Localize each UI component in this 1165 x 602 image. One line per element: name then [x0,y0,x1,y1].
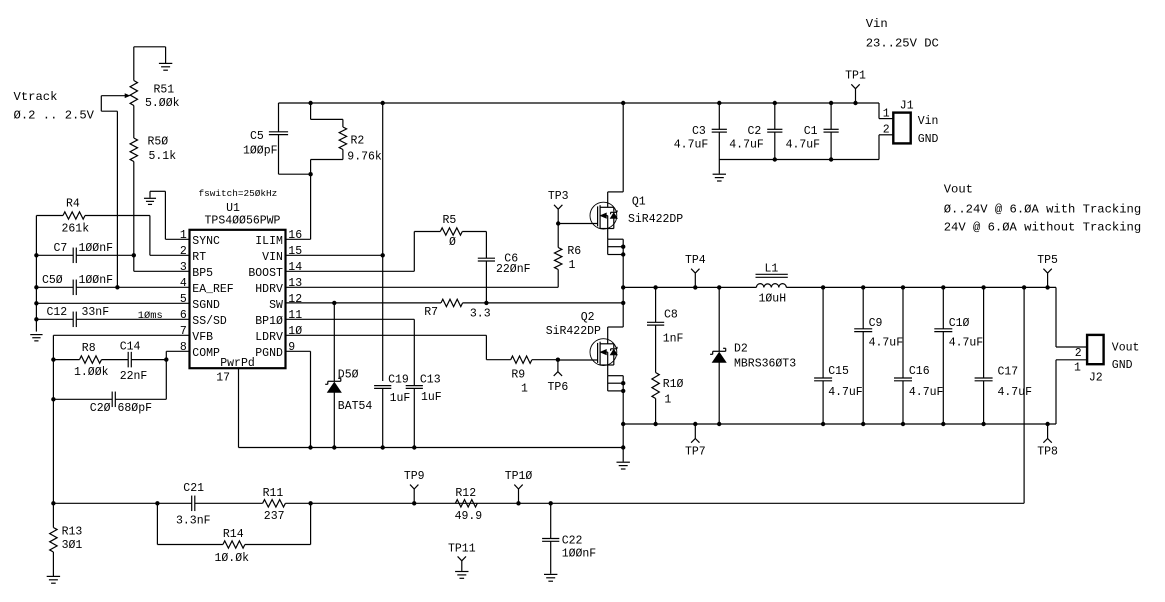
transistor Q1 SiR422DP [622,103,624,192]
svg-text:R13: R13 [62,525,83,538]
svg-text:R2: R2 [351,134,365,147]
wire power ground rail [623,423,1056,425]
Q1 source pin ladder [607,229,609,240]
svg-text:R9: R9 [511,369,525,382]
svg-text:5.ØØk: 5.ØØk [145,97,180,110]
svg-text:4.7uF: 4.7uF [674,138,709,151]
capacitor C8 [655,287,657,322]
svg-text:RT: RT [192,251,206,264]
svg-text:ILIM: ILIM [255,235,283,248]
wire COMP pin8 [166,350,189,352]
test point TP10 [518,489,520,503]
svg-text:TP11: TP11 [448,542,476,555]
svg-text:C17: C17 [998,365,1019,378]
svg-text:R8: R8 [82,342,96,355]
svg-text:C1: C1 [804,125,818,138]
capacitor C12 [36,318,73,320]
test point TP1 [855,89,857,103]
svg-text:11: 11 [288,309,302,322]
svg-text:C21: C21 [183,482,204,495]
capacitor C1 [830,103,832,129]
svg-text:C15: C15 [828,365,849,378]
resistor R13 [52,503,54,527]
wire input cap ground rail [719,159,879,161]
svg-text:SiR422DP: SiR422DP [628,213,683,226]
wire PGND pin9 [286,350,311,352]
svg-text:1ØØnF: 1ØØnF [79,242,114,255]
svg-text:2: 2 [1075,347,1082,360]
wire PwrPd pin17 [238,368,240,448]
svg-text:68ØpF: 68ØpF [118,402,153,415]
svg-text:33nF: 33nF [82,306,110,319]
svg-text:C9: C9 [869,317,883,330]
svg-text:Ø.2 .. 2.5V: Ø.2 .. 2.5V [14,109,95,123]
wire Q2 source to ground rail [622,391,624,448]
wire wiper to EA_REF [100,96,102,112]
diode D50 BAT54 [333,303,335,381]
svg-text:4: 4 [180,277,187,290]
pot wiper arrow R51 [101,95,125,97]
capacitor C17 [983,287,985,378]
resistor R50 [133,106,135,139]
svg-text:16: 16 [288,229,302,242]
wire HDRV pin13 [286,286,559,288]
svg-text:261k: 261k [62,222,90,235]
svg-text:TP7: TP7 [685,445,706,458]
test point TP9 [413,489,415,503]
test point TP3 [557,209,559,223]
ground (power pad rail) [622,448,624,462]
svg-text:TP1: TP1 [845,70,866,83]
svg-text:1: 1 [664,394,671,407]
wire SGND pin5 [36,302,189,304]
svg-text:J2: J2 [1089,372,1103,385]
svg-text:13: 13 [288,277,302,290]
connector J1 [878,103,880,119]
svg-text:Vtrack: Vtrack [14,90,58,104]
svg-text:3: 3 [180,261,187,274]
svg-text:4.7uF: 4.7uF [729,138,764,151]
capacitor C50 [36,286,73,288]
svg-text:TP5: TP5 [1037,254,1058,267]
svg-text:MBRS36ØT3: MBRS36ØT3 [734,357,796,370]
svg-text:Vin: Vin [866,17,888,31]
svg-text:R7: R7 [424,306,438,319]
svg-text:Vout: Vout [1112,342,1140,355]
ground (SYNC pin1) [150,190,165,192]
wire LDRV pin10 [286,334,487,336]
svg-text:PGND: PGND [255,347,283,360]
resistor R14 [156,503,158,544]
diode D2 MBRS360T3 [718,287,720,351]
wire VFB to feedback line [52,399,54,503]
svg-text:4.7uF: 4.7uF [949,337,984,350]
svg-text:COMP: COMP [192,347,220,360]
svg-text:LDRV: LDRV [255,331,283,344]
svg-text:R6: R6 [567,245,581,258]
svg-text:1: 1 [180,229,187,242]
wire R9 to Q2 gate [532,359,558,361]
capacitor C2 [774,103,776,129]
svg-text:9.76k: 9.76k [347,151,382,164]
Q2 source pin ladder [607,365,609,376]
wire R50 to BP5 and RT junction [133,162,135,272]
svg-text:SS/SD: SS/SD [192,315,227,328]
resistor R12 [455,500,477,507]
svg-text:R14: R14 [223,528,244,541]
svg-text:1Ø: 1Ø [288,325,302,338]
svg-text:4.7uF: 4.7uF [998,386,1033,399]
svg-text:R1Ø: R1Ø [663,378,684,391]
svg-text:2: 2 [180,245,187,258]
svg-text:BOOST: BOOST [248,267,283,280]
svg-text:C3: C3 [692,125,706,138]
capacitor C3 [718,103,720,129]
svg-text:22ØnF: 22ØnF [496,263,531,276]
svg-text:1: 1 [1074,362,1081,375]
svg-text:TP3: TP3 [548,190,569,203]
test point TP7 [694,424,696,439]
svg-text:VFB: VFB [192,331,213,344]
svg-text:1nF: 1nF [663,333,684,346]
wire BP10 pin11 [286,318,415,320]
svg-text:4.7uF: 4.7uF [786,138,821,151]
op-amp U1 TPS40056PWP box [190,230,286,368]
svg-text:22nF: 22nF [120,370,148,383]
svg-text:1uF: 1uF [390,392,411,405]
svg-text:GND: GND [918,133,939,146]
svg-text:C2: C2 [747,125,761,138]
svg-text:TP4: TP4 [685,254,706,267]
svg-text:1Ø.Øk: 1Ø.Øk [215,552,250,565]
svg-text:2: 2 [883,123,890,136]
svg-text:17: 17 [216,372,230,385]
resistor R11 [263,500,286,507]
svg-text:TP1Ø: TP1Ø [505,470,533,483]
svg-text:C5Ø: C5Ø [42,274,63,287]
svg-text:C7: C7 [54,242,68,255]
svg-text:15: 15 [288,245,302,258]
resistor R51 (pot) [130,81,137,106]
wire SW pin12 [286,302,442,304]
capacitor C22 [550,503,552,538]
wire R11 to TP9 [285,502,1024,504]
wire VIN pin15 feed [382,103,384,381]
wire R6 to Q1 gate [557,224,559,248]
svg-text:12: 12 [288,293,302,306]
svg-text:J1: J1 [900,100,914,113]
svg-text:C12: C12 [47,306,68,319]
svg-text:C13: C13 [420,374,441,387]
svg-text:R5Ø: R5Ø [148,136,169,149]
svg-text:SYNC: SYNC [192,235,220,248]
ground (R13) [52,552,54,576]
svg-text:L1: L1 [765,263,779,276]
resistor R6 [555,248,562,270]
svg-text:Vin: Vin [918,115,939,128]
resistor R4 [36,215,63,217]
test point TP6 [557,360,559,372]
test point TP4 [694,273,696,287]
resistor R8 [53,359,79,361]
svg-text:fswitch=25ØkHz: fswitch=25ØkHz [199,188,278,199]
svg-text:3.3: 3.3 [470,308,491,321]
svg-text:Q2: Q2 [581,311,595,324]
svg-text:Q1: Q1 [632,195,646,208]
ground (left column) [30,334,42,336]
svg-text:4.7uF: 4.7uF [828,386,863,399]
wire R4 to RT pin2 [149,216,151,256]
capacitor C16 [902,287,904,378]
svg-text:D5Ø: D5Ø [338,369,359,382]
resistor R5 [414,231,440,233]
svg-text:BP5: BP5 [192,267,213,280]
svg-text:5: 5 [180,293,187,306]
svg-text:TP8: TP8 [1037,445,1058,458]
capacitor C13 [406,385,423,387]
svg-text:1: 1 [883,107,890,120]
svg-text:R12: R12 [455,487,476,500]
wire ILIM feed [310,174,312,239]
capacitor C19 [374,385,391,387]
svg-text:R11: R11 [263,487,284,500]
wire BOOST pin14 [286,270,415,272]
svg-text:1Øms: 1Øms [138,310,163,322]
svg-text:C5: C5 [250,130,264,143]
ground (input caps) [718,160,720,174]
wire SYNC pin1 [164,191,166,239]
ground (C22) [544,573,557,575]
resistor R7 [441,299,463,306]
svg-text:TP9: TP9 [404,470,425,483]
test point TP5 [1047,273,1049,287]
svg-text:Ø: Ø [449,236,456,249]
wire switch node to L1 [623,286,756,288]
svg-text:C22: C22 [562,535,583,548]
svg-text:GND: GND [1112,359,1133,372]
capacitor C6 [485,232,487,259]
ground (R51 top) [133,47,135,81]
test point TP11 (grounded) [458,556,462,560]
svg-text:49.9: 49.9 [455,510,483,523]
svg-text:1ØØnF: 1ØØnF [562,548,597,561]
resistor R10 [652,373,659,399]
test point TP8 [1047,424,1049,439]
svg-text:7: 7 [180,325,187,338]
svg-text:1ØØpF: 1ØØpF [243,145,278,158]
svg-text:U1: U1 [226,202,240,215]
svg-text:SW: SW [269,299,283,312]
svg-text:6: 6 [180,309,187,322]
capacitor C21 [191,496,193,512]
wire R7 to switch node [463,302,624,304]
svg-text:R4: R4 [66,198,80,211]
svg-text:SiR422DP: SiR422DP [546,325,601,338]
capacitor C15 [822,287,824,378]
svg-text:14: 14 [288,261,302,274]
capacitor C5 [278,103,280,132]
svg-text:3Ø1: 3Ø1 [62,539,83,552]
capacitor C14 [102,359,129,361]
svg-text:C1Ø: C1Ø [949,317,970,330]
svg-text:C14: C14 [120,341,141,354]
svg-text:Vout: Vout [944,183,973,197]
svg-text:D2: D2 [734,343,748,356]
svg-text:R5: R5 [443,214,457,227]
svg-text:BP1Ø: BP1Ø [255,315,283,328]
svg-text:SGND: SGND [192,299,220,312]
resistor R2 [310,103,312,119]
capacitor C9 [862,287,864,328]
svg-text:Ø..24V @ 6.ØA with Tracking: Ø..24V @ 6.ØA with Tracking [944,202,1141,216]
capacitor C7 [36,254,73,256]
transistor Q2 SiR422DP [608,326,624,328]
wire Vin rail [279,102,880,104]
svg-text:C19: C19 [388,374,409,387]
svg-text:1ØuH: 1ØuH [759,293,787,306]
wire left ground column [35,216,37,332]
svg-text:1: 1 [521,383,528,396]
svg-text:C16: C16 [909,365,930,378]
svg-text:24V @ 6.ØA without Tracking: 24V @ 6.ØA without Tracking [944,220,1141,234]
capacitor C10 [942,287,944,328]
svg-text:BAT54: BAT54 [338,400,373,413]
capacitor C20 [52,360,54,400]
inductor L1 [756,273,788,275]
svg-text:4.7uF: 4.7uF [869,337,904,350]
svg-text:TPS4ØØ56PWP: TPS4ØØ56PWP [205,214,281,227]
svg-text:PwrPd: PwrPd [220,357,255,370]
svg-text:HDRV: HDRV [255,283,283,296]
svg-text:1ØØnF: 1ØØnF [79,274,114,287]
svg-text:R51: R51 [154,84,175,97]
resistor R9 [511,356,532,363]
svg-text:VIN: VIN [262,251,283,264]
svg-text:C8: C8 [664,309,678,322]
connector J2 [1055,287,1057,347]
wire VFB pin7 [53,334,189,336]
svg-text:TP6: TP6 [548,381,569,394]
wire Vout rail [786,286,1056,288]
svg-text:5.1k: 5.1k [149,150,177,163]
svg-text:4.7uF: 4.7uF [909,386,944,399]
svg-text:EA_REF: EA_REF [192,283,234,296]
svg-text:8: 8 [180,341,187,354]
svg-text:23..25V DC: 23..25V DC [866,37,939,51]
svg-text:1uF: 1uF [421,391,442,404]
wire switch node [622,255,624,328]
wire Vout sense feedback [1023,287,1025,503]
svg-text:237: 237 [264,510,285,523]
svg-text:1: 1 [569,259,576,272]
svg-text:C2Ø: C2Ø [90,402,111,415]
svg-text:1.ØØk: 1.ØØk [74,366,109,379]
svg-text:3.3nF: 3.3nF [176,515,211,528]
svg-text:9: 9 [288,341,295,354]
